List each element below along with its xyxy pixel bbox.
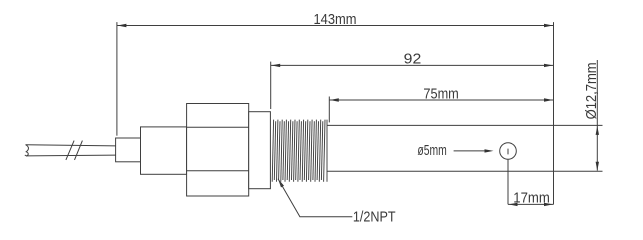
hex flat line upper xyxy=(187,126,249,128)
dim 17mm right arrow xyxy=(544,203,553,206)
dim 75mm left extension line xyxy=(328,97,330,123)
dim 143mm left extension line xyxy=(116,22,118,136)
svg-text:Ø12,7mm: Ø12,7mm xyxy=(584,62,600,119)
hole circle Ø5mm xyxy=(500,143,517,160)
dim 75mm left arrow xyxy=(330,98,339,101)
svg-text:143mm: 143mm xyxy=(314,12,357,28)
svg-text:ø5mm: ø5mm xyxy=(417,143,446,159)
dim 143mm left arrow xyxy=(117,24,126,27)
svg-text:17mm: 17mm xyxy=(513,191,550,207)
hole centerline down xyxy=(507,159,509,204)
dim 92 line xyxy=(271,64,554,66)
dim 75mm line xyxy=(329,99,553,101)
svg-text:92: 92 xyxy=(404,52,422,68)
hex body xyxy=(187,104,249,197)
cable bottom line xyxy=(26,154,115,157)
dim Ø12,7mm top arrow xyxy=(596,126,599,135)
step collar xyxy=(249,112,271,189)
dim 143mm right arrow xyxy=(544,24,553,27)
dim 75mm right arrow xyxy=(544,98,553,101)
leader 1/2NPT arrow xyxy=(278,179,284,188)
dim 92 left extension line xyxy=(270,62,272,109)
dim 17mm left arrow xyxy=(509,203,518,206)
probe tube bottom edge (extends as dim extension) xyxy=(327,170,603,172)
hole center tick xyxy=(507,149,509,155)
thread 1/2NPT hatching xyxy=(272,120,327,182)
dim 143mm line xyxy=(117,25,554,27)
cable break slash 1 xyxy=(66,141,74,160)
probe tube top edge (extends as dim extension) xyxy=(327,124,603,126)
hex flat line lower xyxy=(187,170,249,172)
dim 92 right arrow xyxy=(544,64,553,67)
cable break slash 2 xyxy=(75,141,83,160)
dim 17mm line xyxy=(508,203,554,205)
cable gland small block xyxy=(116,138,141,162)
dim 92 left arrow xyxy=(271,64,280,67)
probe tube end / shared right extension line xyxy=(553,22,555,204)
svg-text:1/2NPT: 1/2NPT xyxy=(353,210,396,226)
label ø5mm leader line xyxy=(454,150,486,152)
dim Ø12,7mm bottom arrow xyxy=(596,162,599,171)
strain relief block xyxy=(141,127,187,174)
cable torn end xyxy=(25,145,29,156)
leader 1/2NPT line xyxy=(278,179,352,217)
label ø5mm arrow xyxy=(485,149,494,152)
svg-text:75mm: 75mm xyxy=(423,87,458,103)
cable top line xyxy=(26,145,116,146)
dim Ø12,7mm vertical line xyxy=(596,60,598,171)
